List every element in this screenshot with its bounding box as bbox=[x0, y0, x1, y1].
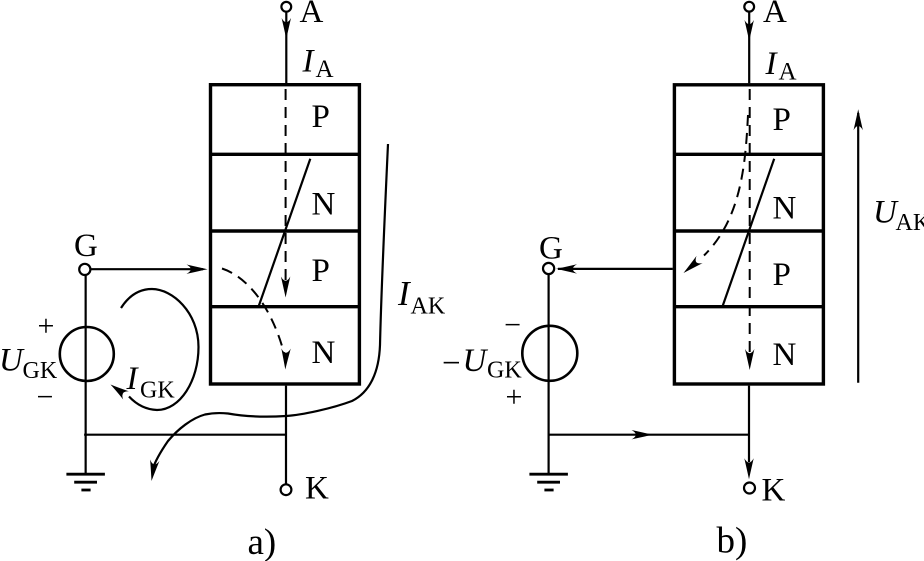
voltage arrow U_AK fig b bbox=[854, 109, 863, 383]
current I_AK return path fig a bbox=[147, 144, 388, 482]
current loop I_GK fig a bbox=[108, 289, 199, 410]
label I_AK fig a bbox=[397, 274, 446, 320]
node A terminal fig a bbox=[281, 0, 323, 30]
svg-text:I: I bbox=[126, 361, 140, 397]
svg-text:I: I bbox=[765, 46, 779, 82]
svg-text:−: − bbox=[37, 380, 54, 413]
svg-text:+: + bbox=[38, 310, 55, 343]
wire cathode lead fig a bbox=[285, 386, 287, 485]
thyristor PNPN structure fig a bbox=[211, 85, 360, 384]
label U_AK fig b bbox=[873, 195, 924, 237]
thyristor PNPN structure fig b bbox=[674, 85, 823, 384]
svg-text:U: U bbox=[463, 343, 489, 379]
dashed gate current path fig b bbox=[680, 115, 748, 277]
label I_A fig b bbox=[765, 46, 797, 86]
svg-text:G: G bbox=[539, 230, 563, 266]
svg-text:G: G bbox=[74, 228, 98, 264]
svg-text:−: − bbox=[504, 309, 521, 342]
svg-text:GK: GK bbox=[140, 378, 175, 404]
wire anode lead fig a bbox=[282, 12, 291, 83]
svg-text:A: A bbox=[316, 56, 334, 83]
dashed anode current path fig b bbox=[745, 89, 754, 370]
svg-text:AK: AK bbox=[896, 210, 924, 236]
svg-text:I: I bbox=[302, 43, 316, 79]
svg-text:N: N bbox=[773, 191, 797, 227]
label I_A fig a bbox=[302, 43, 334, 83]
wire cathode lead fig b bbox=[744, 386, 753, 480]
junction boundary diagonal fig b bbox=[723, 159, 775, 306]
label U_GK fig a bbox=[0, 343, 58, 384]
ground fig a bbox=[66, 435, 105, 490]
svg-text:P: P bbox=[312, 99, 330, 135]
svg-text:K: K bbox=[762, 473, 786, 509]
svg-text:−: − bbox=[442, 346, 461, 382]
wire gate to source fig b bbox=[547, 274, 549, 436]
svg-text:+: + bbox=[506, 381, 523, 414]
svg-text:K: K bbox=[305, 471, 329, 507]
node G terminal fig a bbox=[74, 228, 98, 275]
wire gate lead fig b bbox=[556, 264, 673, 273]
wire gate to source fig a bbox=[85, 275, 87, 436]
voltage source U_GK fig a bbox=[60, 327, 114, 381]
wire anode lead fig b bbox=[745, 12, 754, 84]
dashed gate current path fig a bbox=[222, 269, 291, 370]
svg-text:N: N bbox=[773, 337, 797, 373]
label I_GK fig a bbox=[126, 361, 176, 404]
node K terminal fig a bbox=[281, 471, 329, 507]
svg-text:A: A bbox=[763, 0, 787, 30]
node A terminal fig b bbox=[744, 0, 787, 30]
svg-text:b): b) bbox=[717, 521, 748, 561]
svg-text:N: N bbox=[312, 335, 336, 371]
dashed anode current path fig a bbox=[281, 89, 290, 298]
svg-text:a): a) bbox=[248, 522, 277, 561]
svg-text:AK: AK bbox=[411, 294, 446, 320]
node G terminal fig b bbox=[539, 230, 563, 274]
svg-text:N: N bbox=[312, 187, 336, 223]
svg-text:P: P bbox=[312, 253, 330, 289]
svg-text:A: A bbox=[300, 0, 324, 30]
node K terminal fig b bbox=[744, 473, 786, 509]
wire bottom fig b bbox=[548, 430, 749, 439]
junction boundary diagonal fig a bbox=[259, 159, 311, 306]
svg-text:P: P bbox=[773, 102, 791, 138]
wire gate lead fig a bbox=[91, 265, 208, 274]
wire bottom fig a bbox=[84, 434, 286, 436]
voltage source -U_GK fig b bbox=[522, 326, 577, 381]
label -U_GK fig b bbox=[442, 343, 522, 384]
svg-text:P: P bbox=[773, 257, 791, 293]
svg-text:U: U bbox=[0, 343, 25, 379]
ground fig b bbox=[529, 435, 568, 490]
svg-text:A: A bbox=[779, 59, 797, 86]
